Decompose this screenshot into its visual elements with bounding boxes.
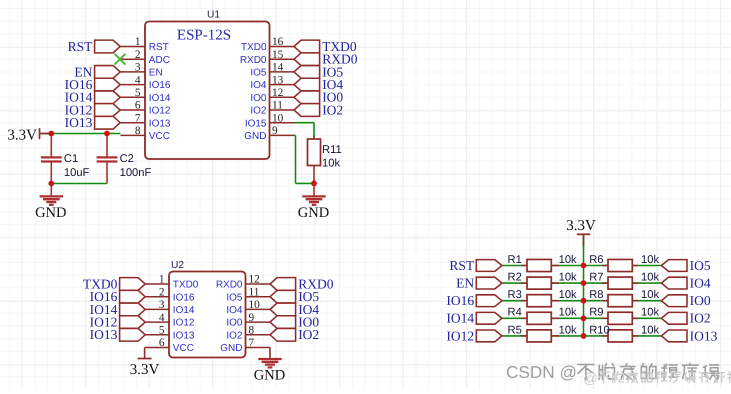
svg-text:6: 6 <box>135 100 141 112</box>
svg-text:CSDN @: CSDN @ <box>506 362 577 382</box>
svg-text:VCC: VCC <box>149 131 170 142</box>
svg-text:RXD0: RXD0 <box>216 280 243 291</box>
svg-text:IO4: IO4 <box>226 305 243 316</box>
svg-text:8: 8 <box>135 125 141 137</box>
svg-text:R7: R7 <box>589 272 603 284</box>
svg-text:IO2: IO2 <box>298 327 319 342</box>
svg-text:10k: 10k <box>641 289 659 301</box>
svg-text:IO13: IO13 <box>690 328 718 343</box>
svg-text:3.3V: 3.3V <box>566 218 596 234</box>
svg-text:IO15: IO15 <box>245 118 267 129</box>
svg-text:IO5: IO5 <box>226 292 243 303</box>
svg-text:RST: RST <box>449 258 475 273</box>
svg-text:IO0: IO0 <box>226 318 243 329</box>
svg-text:IO13: IO13 <box>149 118 171 129</box>
svg-text:ESP-12S: ESP-12S <box>177 28 231 44</box>
svg-text:IO5: IO5 <box>250 68 267 79</box>
svg-text:R8: R8 <box>589 289 603 301</box>
svg-text:U1: U1 <box>207 9 220 20</box>
svg-text:10k: 10k <box>322 158 340 170</box>
svg-text:3.3V: 3.3V <box>130 362 160 378</box>
svg-text:IO14: IO14 <box>149 93 171 104</box>
svg-text:IO0: IO0 <box>690 293 711 308</box>
svg-text:IO14: IO14 <box>173 305 195 316</box>
svg-text:100nF: 100nF <box>120 167 152 179</box>
svg-text:IO16: IO16 <box>446 293 474 308</box>
svg-text:R5: R5 <box>508 324 522 336</box>
svg-text:10k: 10k <box>641 272 659 284</box>
svg-text:GND: GND <box>254 368 285 384</box>
svg-text:12: 12 <box>249 274 261 286</box>
svg-text:5: 5 <box>135 87 141 99</box>
svg-text:10k: 10k <box>641 307 659 319</box>
svg-text:IO4: IO4 <box>250 80 267 91</box>
svg-text:R4: R4 <box>508 307 522 319</box>
svg-text:U2: U2 <box>171 260 184 271</box>
svg-text:GND: GND <box>220 343 242 354</box>
svg-text:2: 2 <box>135 49 141 61</box>
svg-text:IO12: IO12 <box>446 328 474 343</box>
svg-text:10: 10 <box>272 112 284 124</box>
svg-text:14: 14 <box>272 62 284 74</box>
svg-text:10k: 10k <box>559 324 577 336</box>
svg-text:11: 11 <box>249 286 260 298</box>
svg-text:RST: RST <box>149 42 169 53</box>
svg-text:IO2: IO2 <box>690 311 711 326</box>
svg-text:16: 16 <box>272 36 284 48</box>
svg-text:IO2: IO2 <box>226 330 243 341</box>
svg-text:4: 4 <box>135 74 141 86</box>
svg-text:TXD0: TXD0 <box>173 280 199 291</box>
svg-text:IO2: IO2 <box>250 106 267 117</box>
svg-text:10: 10 <box>249 299 261 311</box>
svg-text:@: @ <box>583 371 598 387</box>
svg-text:GND: GND <box>35 205 66 221</box>
svg-text:GND: GND <box>244 131 266 142</box>
svg-text:IO0: IO0 <box>250 93 267 104</box>
svg-text:RXD0: RXD0 <box>240 55 267 66</box>
svg-text:15: 15 <box>272 49 284 61</box>
svg-text:C2: C2 <box>120 153 134 165</box>
svg-text:3: 3 <box>135 62 141 74</box>
svg-text:10k: 10k <box>641 254 659 266</box>
svg-text:EN: EN <box>149 68 163 79</box>
svg-text:12: 12 <box>272 87 284 99</box>
svg-text:3.3V: 3.3V <box>7 127 37 143</box>
svg-text:IO12: IO12 <box>173 318 195 329</box>
svg-text:R10: R10 <box>589 324 610 336</box>
svg-text:IO16: IO16 <box>149 80 171 91</box>
svg-text:IO12: IO12 <box>149 106 171 117</box>
svg-text:10k: 10k <box>641 324 659 336</box>
svg-text:8: 8 <box>249 325 255 337</box>
svg-text:R11: R11 <box>322 144 342 156</box>
svg-text:5: 5 <box>159 325 165 337</box>
svg-text:7: 7 <box>249 337 255 349</box>
svg-text:10uF: 10uF <box>64 167 90 179</box>
svg-text:2: 2 <box>159 286 165 298</box>
svg-text:EN: EN <box>456 276 474 291</box>
svg-text:13: 13 <box>272 74 284 86</box>
svg-text:R6: R6 <box>589 254 603 266</box>
svg-text:R1: R1 <box>508 254 522 266</box>
svg-text:GND: GND <box>298 205 329 221</box>
svg-text:4: 4 <box>159 312 165 324</box>
svg-text:7: 7 <box>135 112 141 124</box>
svg-text:IO5: IO5 <box>690 258 711 273</box>
svg-text:3: 3 <box>159 299 165 311</box>
svg-text:RST: RST <box>68 39 94 54</box>
svg-text:IO4: IO4 <box>690 276 711 291</box>
svg-text:ADC: ADC <box>149 55 170 66</box>
svg-text:6: 6 <box>159 337 165 349</box>
svg-text:9: 9 <box>249 312 255 324</box>
svg-text:10k: 10k <box>559 254 577 266</box>
svg-text:1: 1 <box>135 36 141 48</box>
svg-text:1: 1 <box>159 274 165 286</box>
svg-text:IO13: IO13 <box>90 327 118 342</box>
svg-text:C1: C1 <box>64 153 78 165</box>
svg-text:IO13: IO13 <box>173 330 195 341</box>
svg-text:R9: R9 <box>589 307 603 319</box>
svg-text:R3: R3 <box>508 289 522 301</box>
svg-text:IO13: IO13 <box>65 115 93 130</box>
svg-text:IO16: IO16 <box>173 292 195 303</box>
svg-text:9: 9 <box>272 125 278 137</box>
svg-text:TXD0: TXD0 <box>241 42 267 53</box>
svg-text:IO2: IO2 <box>322 102 343 117</box>
svg-text:VCC: VCC <box>173 343 194 354</box>
svg-text:R2: R2 <box>508 272 522 284</box>
svg-text:10k: 10k <box>559 289 577 301</box>
svg-text:10k: 10k <box>559 307 577 319</box>
svg-text:11: 11 <box>272 100 283 112</box>
svg-text:10k: 10k <box>559 272 577 284</box>
svg-text:IO14: IO14 <box>446 311 474 326</box>
